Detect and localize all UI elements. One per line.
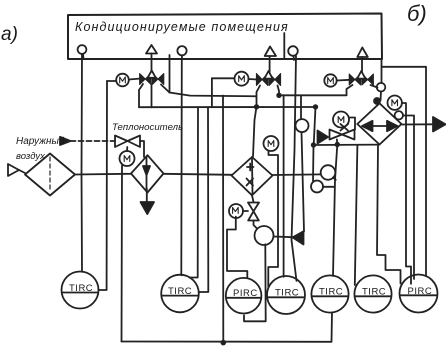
svg-text:TIRC: TIRC	[69, 283, 93, 294]
svg-text:Теплоноситель: Теплоноситель	[112, 122, 183, 133]
svg-text:Наружный: Наружный	[16, 136, 65, 147]
svg-text:а): а)	[1, 24, 18, 45]
svg-text:воздух: воздух	[16, 151, 46, 162]
svg-text:PIRC: PIRC	[408, 286, 433, 297]
svg-text:Кондиционируемые помещения: Кондиционируемые помещения	[75, 20, 289, 34]
svg-text:TIRC: TIRC	[362, 287, 386, 298]
svg-text:PIRC: PIRC	[233, 288, 258, 299]
svg-text:б): б)	[407, 1, 427, 26]
svg-text:TIRC: TIRC	[319, 287, 343, 298]
svg-text:TIRC: TIRC	[168, 286, 192, 297]
svg-text:TIRC: TIRC	[275, 288, 299, 299]
